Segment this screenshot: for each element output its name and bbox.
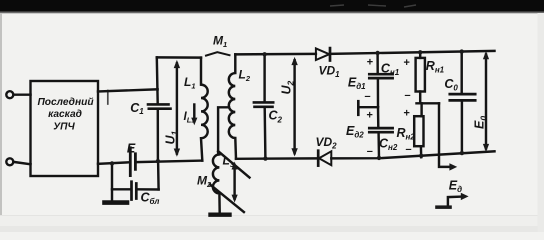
Ed output wire bbox=[439, 103, 450, 167]
arrowhead I_L1 bbox=[191, 118, 197, 126]
M2 diagonal stroke upper bbox=[218, 151, 249, 177]
input terminal 2 bbox=[6, 158, 13, 165]
capacitor Cn1 plates bbox=[369, 74, 392, 78]
capacitor C0 plates bbox=[450, 94, 475, 100]
diode VD1 cathode bar bbox=[329, 48, 332, 60]
wire terminal2 to box bbox=[14, 162, 31, 164]
M2 variable arrow shaft bbox=[233, 166, 235, 199]
arrowhead U2 top bbox=[291, 57, 297, 65]
junction dot rail top C0 bbox=[460, 49, 464, 53]
svg-text:–: – bbox=[365, 91, 371, 103]
svg-text:УПЧ: УПЧ bbox=[53, 122, 75, 133]
battery E plates bbox=[130, 148, 135, 176]
Ed terminal symbol stub bbox=[448, 197, 462, 206]
inductor L2 bbox=[229, 54, 236, 158]
svg-text:Последний: Последний bbox=[37, 97, 94, 108]
arrowhead U1 top bbox=[174, 60, 180, 68]
capacitor Cn2 lead bbox=[378, 107, 379, 158]
top black scan bar bbox=[0, 0, 544, 12]
wire bottom E-wire bbox=[98, 161, 202, 164]
arrowhead U1 bottom bbox=[174, 149, 180, 157]
current arrow I_L1 bbox=[193, 105, 195, 120]
left scan edge bbox=[0, 13, 2, 232]
input terminal 1 bbox=[6, 91, 13, 98]
top rail tank2 to diodes bbox=[235, 51, 494, 55]
capacitor Cbl wires bbox=[112, 188, 159, 191]
capacitor C0 lead bbox=[460, 52, 463, 154]
svg-text:+: + bbox=[403, 108, 410, 120]
wire C1 branch vertical bbox=[157, 57, 159, 189]
amplifier block box bbox=[31, 81, 99, 176]
resistor Rn1 leads bbox=[419, 52, 421, 103]
junction dot rail bottom C0 bbox=[460, 151, 464, 155]
Ed terminal bar bbox=[435, 205, 452, 209]
resistor Rn2 bbox=[414, 116, 423, 146]
resistor Rn2 lead top bbox=[420, 103, 422, 116]
stray scan stroke bbox=[107, 91, 109, 105]
E0 measure arrow shaft bbox=[485, 55, 487, 149]
M1 coupling bracket bbox=[206, 52, 230, 55]
capacitor C1 bbox=[148, 104, 171, 108]
arrowhead M2 bottom bbox=[232, 195, 238, 203]
svg-text:Е: Е bbox=[127, 141, 136, 155]
arrowhead U2 bottom bbox=[291, 148, 297, 156]
arrowhead E0 top bbox=[483, 51, 489, 59]
ground bar 1 bbox=[105, 200, 128, 205]
capacitor C2 lead bottom bbox=[263, 108, 266, 159]
junction dot rail top C2 bbox=[262, 52, 266, 56]
diode VD2 cathode bar bbox=[317, 151, 320, 166]
bottom rail tank2 bbox=[236, 151, 495, 159]
svg-text:+: + bbox=[366, 110, 373, 122]
arrowhead Ed terminal bbox=[461, 193, 469, 200]
wire ground branch bbox=[111, 163, 113, 200]
center node wire bbox=[417, 102, 440, 104]
ground bar 2 bbox=[211, 212, 230, 216]
diode VD1 bbox=[316, 48, 329, 60]
capacitor Cbl plates bbox=[132, 182, 137, 200]
svg-text:+: + bbox=[403, 57, 410, 69]
wire box top output bbox=[98, 89, 158, 91]
junction dot rail top Rn1 bbox=[418, 50, 422, 54]
svg-text:каскад: каскад bbox=[48, 109, 82, 120]
arrowhead M2 top bbox=[232, 162, 238, 170]
junction dot bottom wire / C1 ext bbox=[156, 159, 160, 163]
resistor Rn2 lead bottom bbox=[420, 146, 423, 157]
inductor L3 bbox=[213, 154, 220, 213]
svg-text:–: – bbox=[367, 145, 373, 157]
capacitor C2 lead top bbox=[263, 54, 265, 102]
junction dot rail bottom C2 bbox=[263, 156, 267, 160]
junction dot rail bottom Cn2 bbox=[377, 156, 381, 160]
junction dot rail bottom Rn2 bbox=[419, 154, 423, 158]
capacitor Cn2 plates bbox=[369, 128, 392, 132]
junction dot ground branch bbox=[110, 161, 114, 165]
output tap wire bbox=[360, 106, 379, 108]
inductor L1 bbox=[201, 58, 208, 161]
output tap T-bar bbox=[357, 101, 360, 115]
svg-text:+: + bbox=[367, 57, 374, 69]
bottom scan edge bbox=[0, 216, 544, 233]
svg-text:–: – bbox=[405, 90, 411, 102]
arrowhead Ed wire bbox=[449, 163, 457, 170]
resistor Rn1 bbox=[416, 58, 425, 92]
wire tank1 top rail bbox=[157, 56, 201, 59]
voltage arrow U2 bbox=[293, 60, 295, 153]
voltage arrow U1 bbox=[176, 64, 178, 154]
wire L3 tap bbox=[218, 107, 229, 154]
M2 diagonal stroke lower bbox=[210, 184, 244, 212]
arrowhead E0 bottom bbox=[483, 144, 489, 152]
junction dot rail top Cn1 bbox=[375, 51, 379, 55]
svg-text:–: – bbox=[406, 144, 412, 156]
wire terminal1 to box bbox=[14, 93, 31, 95]
capacitor Cn1 lead bbox=[376, 53, 379, 106]
capacitor C2 plates bbox=[254, 102, 273, 106]
diode VD2 bbox=[319, 151, 331, 165]
